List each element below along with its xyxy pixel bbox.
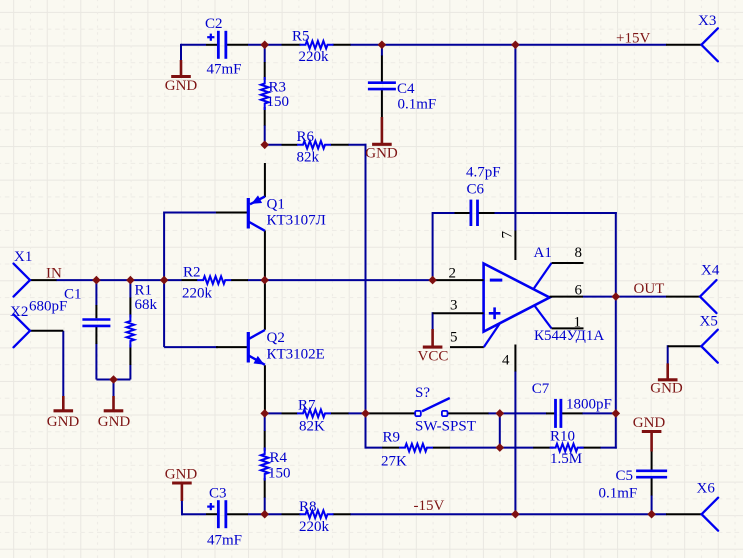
svg-text:R7: R7 [298, 398, 316, 414]
wire X5 corner down [667, 345, 669, 364]
svg-text:Q1: Q1 [267, 197, 285, 213]
svg-text:R10: R10 [550, 429, 575, 445]
pin R9 leads [382, 447, 399, 449]
svg-text:X3: X3 [698, 13, 716, 29]
op-amp pin 8 lead [552, 262, 584, 264]
op-amp plus marker [489, 312, 501, 315]
wire C5 bottom stub [651, 495, 653, 514]
wire tie down to GND [113, 380, 115, 398]
capacitor C4 [368, 81, 396, 84]
svg-text:220k: 220k [182, 286, 213, 302]
pin R4 leads [264, 431, 266, 451]
op-amp minus marker [490, 279, 503, 282]
wire base rail vertical [163, 212, 165, 348]
svg-text:A1: A1 [534, 245, 552, 261]
junction R4/C3/R8 [260, 510, 269, 519]
svg-text:S?: S? [415, 385, 430, 401]
svg-text:C7: C7 [532, 381, 550, 397]
svg-text:X2: X2 [10, 304, 28, 320]
svg-text:220k: 220k [299, 49, 330, 65]
wire pin3 corner to VCC [432, 312, 434, 330]
wire base rail horizontal to Q1 [164, 212, 218, 214]
wire R4 bottom stub [264, 498, 266, 515]
svg-text:0.1mF: 0.1mF [599, 486, 638, 502]
svg-text:27K: 27K [381, 454, 407, 470]
wire C4 top stub [381, 45, 383, 56]
pin C6 leads [455, 212, 471, 214]
svg-text:7: 7 [500, 231, 516, 239]
wire R7 left [265, 412, 282, 414]
resistor R5 [300, 41, 334, 49]
connector X4 [700, 280, 717, 313]
svg-text:GND: GND [633, 415, 666, 431]
svg-text:2: 2 [449, 266, 457, 282]
capacitor C2 [217, 31, 220, 59]
op-amp pin 6 lead [550, 296, 583, 298]
connector X5 [701, 330, 718, 363]
power port VCC [431, 329, 434, 346]
connector X1 [14, 264, 31, 297]
junction IN/C1 [92, 276, 101, 285]
pin C7 leads [546, 412, 555, 414]
wire switch bypass vertical [499, 413, 501, 447]
wire R10 right corner [600, 447, 617, 449]
wire OUT net [616, 296, 667, 298]
wire R9 left corner [366, 447, 383, 449]
svg-text:150: 150 [267, 94, 290, 110]
junction -15V drop [511, 510, 520, 519]
pin Q2 collector lead [264, 280, 266, 330]
svg-text:82K: 82K [299, 419, 325, 435]
svg-text:R4: R4 [270, 450, 288, 466]
op-amp pin 3 lead [433, 312, 484, 314]
svg-text:C5: C5 [616, 468, 634, 484]
pin R2 leads [182, 279, 198, 281]
connector X3 [701, 28, 718, 61]
resistor R10 [550, 444, 584, 452]
resistor R1 [127, 315, 135, 348]
svg-text:150: 150 [268, 466, 291, 482]
pin C1 leads [95, 305, 97, 318]
ground symbol at X2 [62, 396, 65, 410]
junction -15V/C5 [647, 510, 656, 519]
pin R6 leads [282, 144, 298, 146]
wire R2 to op-amp pin2 [248, 279, 437, 281]
transistor Q2 body [247, 332, 250, 363]
svg-text:GND: GND [165, 78, 198, 94]
svg-text:X6: X6 [697, 481, 716, 497]
junction +15V drop [511, 41, 520, 50]
svg-text:VCC: VCC [418, 349, 449, 365]
capacitor C5 [636, 469, 667, 472]
ground symbol at C4 [381, 117, 384, 144]
wire C1 bottom stub [95, 344, 97, 380]
svg-text:КТ3102Е: КТ3102Е [267, 347, 325, 363]
svg-text:1: 1 [574, 315, 582, 331]
junction IN/R1 [126, 276, 135, 285]
switch S1 SW-SPST [415, 411, 421, 416]
svg-text:+15V: +15V [616, 31, 650, 47]
svg-text:OUT: OUT [634, 281, 665, 297]
wire R10 left [500, 447, 534, 449]
ground symbol at C3 (inverted) [172, 481, 192, 484]
pin R7 leads [282, 412, 298, 414]
pin R5 leads [282, 44, 301, 46]
wire R3 bottom stub [264, 125, 266, 145]
svg-text:GND: GND [365, 146, 398, 162]
pin R1 leads [129, 298, 131, 318]
wire C6 corner down to pin2 [432, 212, 434, 280]
wire R4 top stub [264, 413, 266, 431]
svg-text:R9: R9 [383, 430, 401, 446]
wire R6 left [265, 144, 282, 146]
capacitor C6 [469, 200, 472, 226]
resistor R3 [261, 77, 269, 110]
svg-text:0.1mF: 0.1mF [398, 97, 437, 113]
wire switch node down to R9 [365, 413, 367, 448]
ground symbol at C1/R1 [112, 396, 115, 410]
svg-text:Q2: Q2 [267, 330, 285, 346]
wire +15V rail C2 to R5 [248, 44, 282, 46]
op-amp pin 7 lead [514, 231, 516, 261]
junction +15V/C2/R3 [260, 41, 269, 50]
svg-text:IN: IN [46, 266, 62, 282]
wire R1 top stub [129, 280, 131, 298]
wire feedback vertical [615, 212, 617, 449]
svg-text:GND: GND [165, 467, 198, 483]
svg-text:220k: 220k [299, 519, 330, 535]
wire C7 right [582, 412, 616, 414]
wire -15V rail C3 GND corner [181, 513, 206, 515]
svg-text:5: 5 [450, 330, 458, 346]
resistor R2 [197, 276, 231, 284]
wire -15V rail C3 to R8 [248, 513, 282, 515]
wire C1 top stub [95, 280, 97, 305]
wire +15V drop to op-amp pin7 [514, 45, 516, 231]
pin Q2 base lead [216, 346, 247, 348]
op-amp pin 5 lead [450, 346, 484, 348]
junction IN/base rail [160, 276, 169, 285]
junction R2/collectors [260, 276, 269, 285]
capacitor C7 [554, 399, 557, 428]
wire long vertical R6 corner to switch [365, 144, 367, 415]
wire base rail horizontal to Q2 [164, 346, 218, 348]
capacitor C1 [82, 318, 110, 321]
wire R1 bottom stub [129, 365, 131, 380]
svg-text:1.5M: 1.5M [550, 451, 582, 467]
svg-text:SW-SPST: SW-SPST [415, 419, 476, 435]
junction Q2/R7/R4 [260, 409, 269, 418]
svg-text:GND: GND [650, 381, 683, 397]
op-amp pin 8 stub [533, 263, 551, 289]
wire C2 left drop to GND [180, 44, 182, 61]
svg-text:82k: 82k [297, 150, 320, 166]
pin S1 switch right lead [448, 412, 489, 414]
junction R3/R6/Q1 [260, 141, 269, 150]
svg-text:R6: R6 [297, 129, 315, 145]
junction R9/R10 [496, 443, 505, 452]
pin C4 leads [381, 56, 383, 83]
pin C2 left lead [206, 44, 218, 46]
wire R3 top stub [264, 45, 266, 63]
junction R7/switch [361, 409, 370, 418]
pin R8 leads [282, 513, 301, 515]
junction +15V/C4 [378, 41, 387, 50]
pin X3 lead [666, 44, 701, 46]
pin C3 leads [206, 513, 218, 515]
pin R10 leads [533, 447, 553, 449]
capacitor C3 [217, 500, 220, 528]
pin X1 lead [30, 279, 57, 281]
svg-text:C3: C3 [209, 486, 227, 502]
junction C7/feedback [612, 409, 621, 418]
pin S1 switch left lead [366, 412, 416, 414]
junction switch/bypass [496, 409, 505, 418]
svg-text:8: 8 [575, 245, 583, 261]
svg-text:4: 4 [502, 353, 510, 369]
connector X6 [702, 498, 719, 531]
wire IN net [56, 279, 164, 281]
svg-text:X5: X5 [700, 314, 718, 330]
ground symbol at X5 [666, 363, 669, 379]
svg-text:R8: R8 [299, 499, 317, 515]
svg-text:68k: 68k [135, 297, 158, 313]
wire X2 down to GND [62, 331, 64, 397]
svg-text:-15V: -15V [414, 498, 445, 514]
wire R9 to R10 node [450, 447, 500, 449]
svg-text:X4: X4 [701, 263, 720, 279]
svg-text:GND: GND [98, 414, 131, 430]
resistor R7 [297, 410, 331, 418]
svg-text:1800pF: 1800pF [566, 397, 612, 413]
wire -15V rail R8 to X6 [350, 513, 667, 515]
svg-text:X1: X1 [14, 249, 32, 265]
wire C6 right to corner [494, 212, 617, 214]
svg-text:4.7pF: 4.7pF [466, 165, 501, 181]
wire R6 right to corner [348, 144, 367, 146]
ground symbol at C5 (inverted) [642, 430, 662, 433]
svg-text:47mF: 47mF [207, 62, 242, 78]
svg-text:R5: R5 [292, 29, 310, 45]
svg-text:C6: C6 [467, 182, 485, 198]
wire C3 GND drop [181, 500, 183, 515]
svg-text:6: 6 [575, 283, 583, 299]
resistor R6 [297, 141, 331, 149]
svg-text:C2: C2 [205, 16, 223, 32]
svg-text:GND: GND [47, 414, 80, 430]
resistor R9 [399, 444, 433, 452]
junction pin2/C6 [428, 276, 437, 285]
resistor R8 [300, 510, 334, 518]
wire +15V rail R5 to X3 [350, 44, 667, 46]
wire C1-R1 ground tie [96, 379, 130, 381]
wire op-amp pin4 to -15V rail [514, 371, 516, 514]
svg-text:C4: C4 [397, 81, 415, 97]
pin Q1 collector lead [264, 231, 266, 281]
wire IN node to R2 [164, 279, 181, 281]
wire R7 right [348, 412, 366, 414]
op-amp pin 1 stub [535, 306, 552, 329]
op-amp pin 1 lead [552, 327, 584, 329]
svg-text:3: 3 [450, 298, 458, 314]
op-amp pin 2 lead [433, 279, 484, 281]
pin C2 right lead [227, 44, 249, 46]
op-amp pin 5 stub [484, 324, 500, 347]
junction C1R1 ground [109, 375, 118, 384]
pin R3 leads [264, 62, 266, 80]
pin X5 lead [668, 345, 702, 347]
pin X2 lead [30, 330, 63, 332]
svg-text:680pF: 680pF [29, 299, 67, 315]
connector X2 [14, 314, 31, 347]
wire C6 left corner [433, 212, 455, 214]
op-amp pin 4 lead [514, 345, 516, 372]
resistor R4 [261, 448, 269, 481]
svg-text:К544УД1А: К544УД1А [534, 328, 604, 344]
pin Q2 emitter lead [264, 365, 266, 413]
wire +15V rail left segment [181, 44, 206, 46]
pin X6 lead [666, 513, 702, 515]
transistor Q1 body [247, 198, 250, 229]
pin X4 lead [666, 296, 700, 298]
pin C5 leads [651, 451, 653, 471]
op-amp A1 triangle [484, 264, 550, 332]
wire op-amp output [583, 296, 616, 298]
pin Q1 base lead [216, 212, 247, 214]
wire switch to C7 [488, 412, 547, 414]
svg-text:КТ3107Л: КТ3107Л [267, 213, 326, 229]
svg-text:R2: R2 [183, 265, 201, 281]
junction output node [612, 292, 621, 301]
ground symbol at C2 [180, 60, 183, 76]
svg-text:47mF: 47mF [207, 533, 242, 549]
pin Q1 emitter lead [264, 163, 266, 197]
